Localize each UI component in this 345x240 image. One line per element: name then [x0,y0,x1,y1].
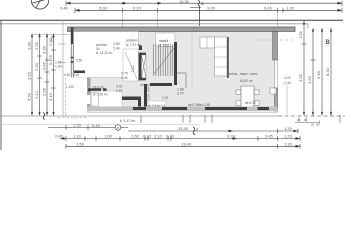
svg-text:1.20: 1.20 [284,141,293,146]
svg-text:3.30: 3.30 [42,45,47,54]
south wall bottom line [87,112,278,114]
svg-text:26: 26 [311,123,315,127]
svg-text:26/26: 26/26 [210,115,214,123]
extension line x=122.5 [122,10,124,31]
window label 1.50/2.40 [113,42,120,51]
arbeiten room extension (white) [123,49,139,81]
left dimension chain 4 [51,34,56,116]
circled a [115,125,121,131]
svg-text:1.125: 1.125 [66,85,74,89]
top dim line 2 arrows [75,9,342,12]
top dimension line 1 (16.30) [66,1,342,6]
svg-text:2.00: 2.00 [48,37,53,46]
chair 4 [254,101,259,106]
abstell labels [159,39,169,48]
south sill 2 [162,107,187,110]
west wall of room block [87,78,91,112]
window label 1.50/1.50 west [55,61,62,69]
svg-text:0.88: 0.88 [147,86,151,92]
svg-text:26: 26 [304,118,308,122]
arbeiten labels [126,39,141,48]
left chain top arrows [31,34,55,38]
svg-text:1.20: 1.20 [284,134,293,139]
svg-text:0.50: 0.50 [73,73,79,77]
bottom boundary line solid [0,115,278,117]
svg-text:0.75: 0.75 [121,72,128,76]
top dim line 1 arrows [66,2,342,5]
leader line right [286,85,288,115]
section line 2 marker top [190,1,201,27]
wall vertical mid [144,84,147,108]
wall vertical right of bad [138,97,141,108]
window label 1.88/2.70 [177,88,184,96]
svg-text:wohnz.- esszi.- raum: wohnz.- esszi.- raum [228,72,258,76]
chair 2 [236,101,241,106]
right chain bottom arrows [303,112,332,116]
svg-text:2.10: 2.10 [154,134,163,139]
kitchen counter L top [200,37,215,48]
svg-text:2.70: 2.70 [177,92,184,96]
south wall labels [162,96,256,107]
wohnen SW corner wall piece [74,71,85,74]
svg-text:abstell: abstell [159,39,169,43]
svg-text:2.95: 2.95 [42,87,47,96]
svg-text:b: 1.47 m²: b: 1.47 m² [120,119,136,123]
svg-text:2.00: 2.00 [27,41,32,50]
svg-text:26/26: 26/26 [338,115,342,123]
svg-text:0.45: 0.45 [265,134,274,139]
survey benchmark circle [31,0,49,9]
bad room top wall dark [88,88,101,91]
svg-text:1.12: 1.12 [34,90,39,99]
row1b arrows [229,130,299,133]
right dimension chain 3 [321,28,323,116]
svg-text:26/26: 26/26 [203,115,207,123]
left dimension chain 2 [37,34,42,116]
terrace edge line west [62,20,64,116]
bottom dim row 2 [60,136,300,141]
svg-text:0.45: 0.45 [264,5,273,10]
svg-text:9.74: 9.74 [227,134,236,139]
stair run line diagonal [154,48,174,74]
svg-text:2.10: 2.10 [131,65,135,72]
roof slab band (north) [68,27,296,31]
living room (white) [74,32,139,78]
property line B [0,23,308,25]
south sill 1 [133,107,146,110]
bottom dim row 3 [66,144,300,149]
niche bottom bar [139,78,146,80]
left chain bottom arrows [31,112,55,116]
svg-text:0.75: 0.75 [116,85,122,89]
svg-text:0.40: 0.40 [55,134,64,139]
svg-text:ab 0.30: ab 0.30 [245,101,256,105]
abstell room (white) above stairs [156,33,176,47]
west band door gap [87,95,91,104]
svg-text:5.00: 5.00 [99,5,108,10]
svg-text:26/26: 26/26 [139,115,143,123]
svg-text:2.30: 2.30 [34,62,39,71]
svg-text:A: 14.22 m²: A: 14.22 m² [96,51,112,55]
wall above bad (dark) [122,97,138,101]
wc room (white) [148,101,166,108]
svg-text:1.50: 1.50 [76,141,85,146]
south sill 3 [205,107,247,110]
small dark wall stub [139,46,142,51]
south sill 4 [258,107,270,110]
svg-text:arbeiten: arbeiten [126,39,138,43]
svg-text:13.43: 13.43 [178,126,189,131]
svg-text:1.50: 1.50 [113,42,120,46]
svg-text:3.55: 3.55 [307,75,312,84]
svg-text:3.10: 3.10 [48,92,53,101]
left chains top connector [32,34,70,36]
left dimension chain 3 [45,34,50,116]
bottom boundary dashed right [278,115,345,117]
left dimension chain 1 [31,34,33,116]
top dimension line 2 [75,8,342,13]
svg-text:0.50: 0.50 [76,59,82,63]
svg-text:1.55: 1.55 [298,30,303,39]
svg-text:B: B [326,40,331,46]
svg-text:4.50: 4.50 [27,92,32,101]
svg-text:66 0.60: 66 0.60 [93,86,104,90]
bottom dim row 1a [48,125,128,130]
svg-text:0.10: 0.10 [166,134,175,139]
svg-text:5.90: 5.90 [316,70,321,79]
stair wall L connector [177,72,186,74]
niche diagonal [142,55,147,78]
svg-text:1.00: 1.00 [104,134,113,139]
wall stub right of bad top [103,88,107,94]
building interior floor (gray) [74,31,275,106]
svg-text:0.10: 0.10 [143,134,152,139]
west window dim brackets [58,44,66,63]
svg-text:9.05: 9.05 [207,5,216,10]
terrace (white) south-west [74,78,88,107]
niche interior white [142,55,147,78]
west wall pier (dark) [71,28,74,45]
bad labels [93,85,122,97]
left boundary vertical [0,20,2,150]
svg-text:26/26: 26/26 [181,115,185,123]
svg-text:A: 3.50 m²: A: 3.50 m² [93,93,108,97]
bottom tiny rotated labels [181,115,342,123]
svg-text:1.50: 1.50 [55,65,62,69]
right chain top arrows [303,21,332,32]
svg-text:6.40: 6.40 [92,123,101,128]
kitchen counter [215,37,228,76]
svg-text:0.175: 0.175 [48,54,53,65]
svg-text:ab 0.38bis 0.38: ab 0.38bis 0.38 [188,103,210,107]
svg-text:A: 7.97 m²: A: 7.97 m² [126,43,141,47]
right dimension chain 1 [302,21,307,116]
east pier [273,31,278,60]
chair 3 [254,90,259,95]
terrace dashed edge horizontal [58,117,87,119]
tiny rotated dims near wc [147,86,151,100]
svg-text:1.20: 1.20 [286,5,295,10]
svg-text:0.40: 0.40 [60,6,69,11]
east wall lower [274,88,277,111]
stair right wall [174,42,177,85]
window label 4.00/2.40 [284,76,291,85]
bottom dim row 1b [128,129,298,134]
svg-text:0.10: 0.10 [133,5,142,10]
bottom light line 2 [0,124,200,126]
svg-text:2.40: 2.40 [113,47,120,51]
svg-text:1.50: 1.50 [73,123,82,128]
property line A [0,19,343,21]
S squiggle on bottom boundary [43,113,45,120]
svg-text:26/26: 26/26 [188,115,192,123]
extension line x=277.5 [277,10,279,27]
svg-text:16.30: 16.30 [179,0,190,4]
svg-text:3.95: 3.95 [27,71,32,80]
svg-text:60,00 m²: 60,00 m² [240,79,253,83]
kitchen wall line [227,37,229,78]
svg-text:0.45: 0.45 [42,61,47,70]
squiggle 2 bottom [193,127,195,135]
svg-text:1.10: 1.10 [73,134,82,139]
svg-text:13.43: 13.43 [181,141,192,146]
svg-text:26: 26 [316,123,320,127]
terrace dashed edge vertical [65,78,67,117]
east wall window double lines [275,60,278,88]
west wall window double lines [71,44,73,78]
room divider line kitchen [191,32,193,88]
svg-text:2.40: 2.40 [121,76,128,80]
svg-text:2.40: 2.40 [284,81,291,85]
furniture top right [270,88,276,94]
top dim 2 labels [60,5,295,10]
bad room (white) [91,91,123,108]
right sub line [295,117,320,125]
right dimension chain 2 [311,28,316,116]
svg-text:4.00: 4.00 [284,76,291,80]
west window jamb marks [71,57,74,59]
svg-text:26: 26 [297,118,301,122]
svg-text:1.20: 1.20 [284,126,293,131]
svg-text:2.00: 2.00 [34,41,39,50]
svg-text:2.70: 2.70 [162,96,168,100]
bathtub [91,93,98,107]
stairs hatch [154,44,173,76]
svg-text:0.50: 0.50 [64,73,70,77]
svg-text:1.60: 1.60 [131,134,140,139]
svg-text:8.30: 8.30 [325,67,330,76]
room label ess/wohnraum [228,72,258,83]
south wall band [87,107,278,112]
svg-text:2.10: 2.10 [116,89,122,93]
stair landing wall [150,83,172,86]
right dimension chain 4 [330,28,332,116]
svg-text:0.38: 0.38 [147,94,151,100]
door label 0.75/2.40 upper [121,72,128,81]
arbeiten door swing [125,52,137,79]
kitchen counter dividers [215,47,228,67]
dining table [241,86,254,108]
niche top bar [139,53,146,55]
roof dashed line over terrace east [255,39,294,41]
svg-text:a: a [117,126,119,130]
svg-text:3.50: 3.50 [298,73,303,82]
terrace labels [64,73,79,89]
chair 1 [236,90,241,95]
wc door labels [148,104,166,108]
living room labels [96,43,112,55]
extension line x=157.5 [157,10,159,31]
entrance door niche: left bar [139,53,142,81]
